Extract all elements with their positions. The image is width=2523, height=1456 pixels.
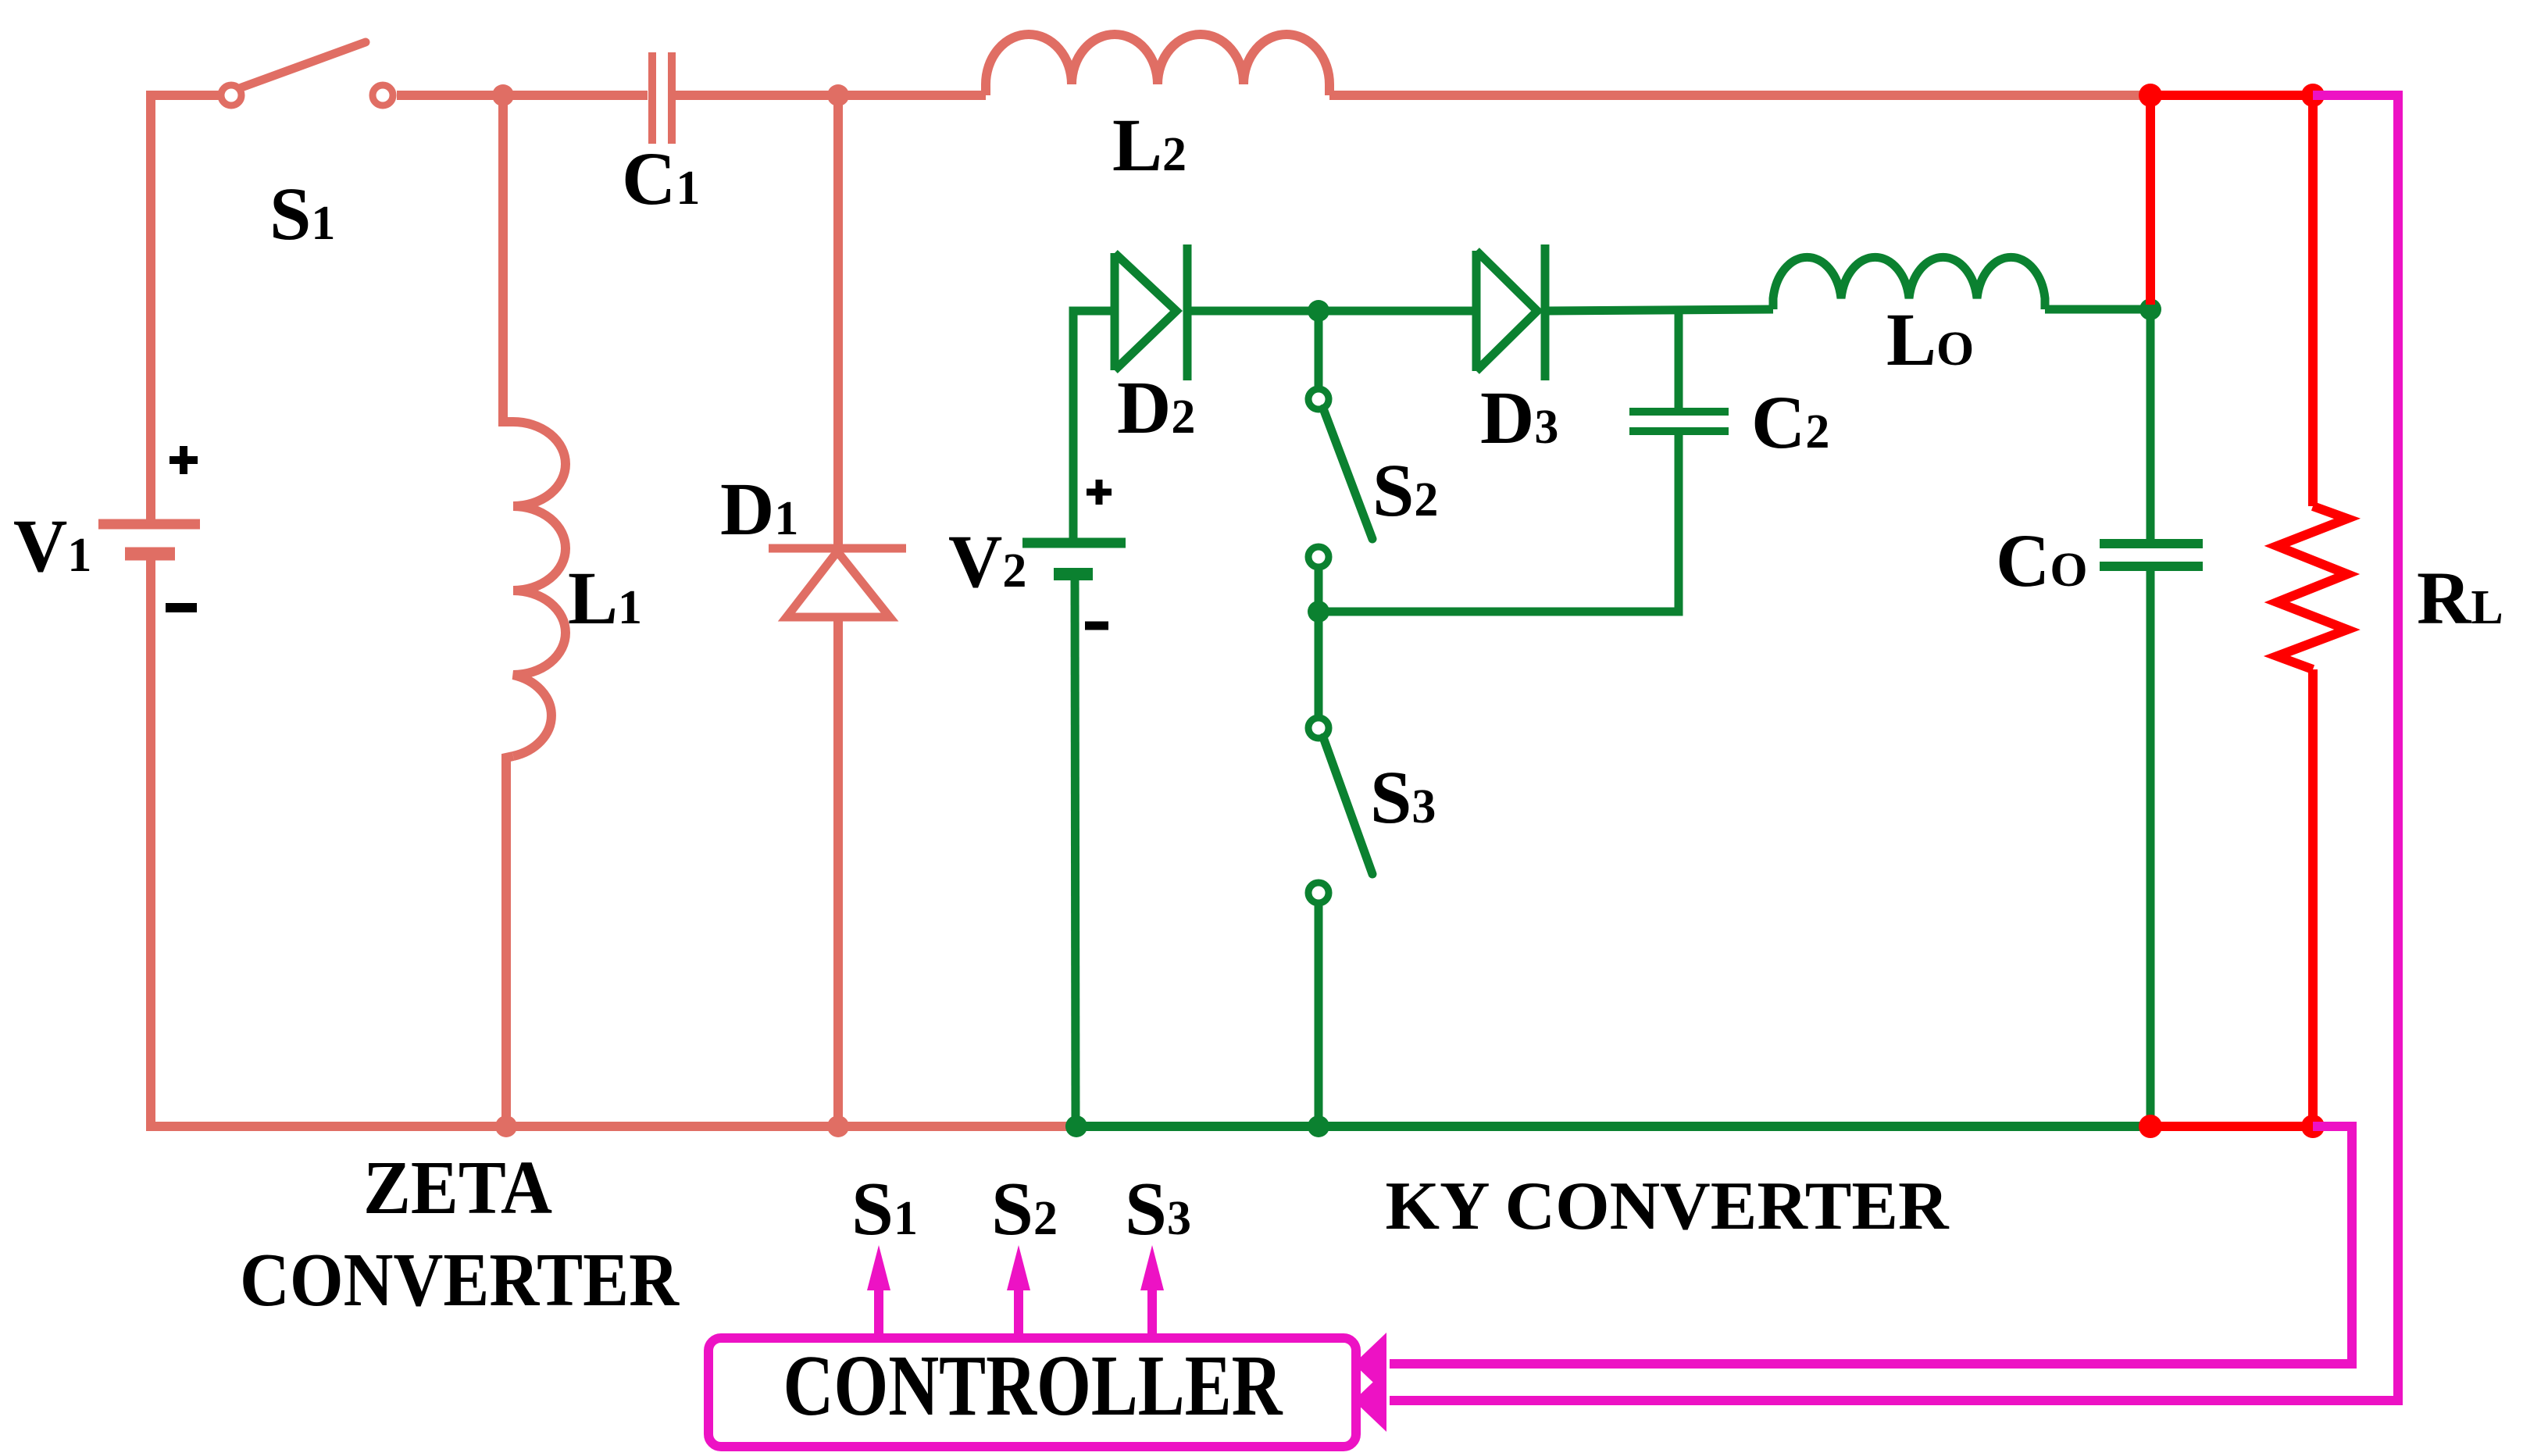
wire bottom output red bbox=[2150, 1122, 2313, 1131]
node S3 bottom bbox=[1308, 1115, 1329, 1137]
wire S2 bottom stub to node bbox=[1315, 567, 1323, 612]
wire output node vertical red bbox=[2146, 95, 2155, 305]
battery V1 bbox=[98, 524, 200, 554]
node L1 bottom bbox=[495, 1115, 517, 1137]
battery V2 bbox=[1022, 543, 1126, 574]
inductor Lo bbox=[1773, 257, 2045, 309]
wire output node down to Co bbox=[2147, 309, 2155, 539]
wire V2 minus down to bottom rail bbox=[1075, 579, 1076, 1126]
arrowhead feedback inner bbox=[1354, 1333, 1386, 1395]
switch S3 contact bottom bbox=[1308, 883, 1329, 903]
wire S2 node stub bbox=[1315, 311, 1323, 388]
wire Lo to output node bbox=[2045, 305, 2150, 314]
resistor RL bbox=[2277, 506, 2347, 669]
junction dots green bbox=[1065, 298, 2161, 1137]
svg-text:S2: S2 bbox=[991, 1167, 1058, 1251]
diode D2 bbox=[1115, 244, 1187, 380]
wire node down to S3 bbox=[1315, 612, 1323, 718]
controller section (magenta) bbox=[708, 95, 2398, 1447]
node S2-S3-C2 bbox=[1308, 601, 1329, 623]
svg-text:D3: D3 bbox=[1480, 376, 1558, 459]
capacitor C1 bbox=[652, 52, 672, 144]
svg-text:C2: C2 bbox=[1751, 380, 1829, 464]
arrowhead gate S1 bbox=[867, 1245, 890, 1290]
node bottom output left bbox=[2139, 1115, 2162, 1138]
wire node to C2 bottom bbox=[1319, 435, 1679, 612]
output section (red) bbox=[2150, 95, 2347, 1126]
wire S1 to C1 bbox=[397, 91, 648, 100]
svg-text:D1: D1 bbox=[720, 467, 798, 551]
wire D2 to D3 bbox=[1187, 307, 1476, 316]
switch S1 contact left bbox=[221, 85, 241, 105]
switch S2 lever bbox=[1323, 409, 1372, 539]
svg-text:CO: CO bbox=[1996, 519, 2088, 602]
svg-text:S3: S3 bbox=[1370, 755, 1436, 839]
wire L2 to node at top-right bbox=[1329, 91, 2150, 100]
svg-text:S1: S1 bbox=[269, 172, 335, 255]
wire RL top lead bbox=[2308, 95, 2318, 506]
arrowhead feedback outer bbox=[1354, 1369, 1386, 1432]
wire Co bottom down bbox=[2147, 571, 2155, 1126]
wire V2 plus up and to D2 anode bbox=[1073, 311, 1115, 538]
node bottom output right bbox=[2301, 1115, 2325, 1138]
label V2 plus bbox=[1087, 480, 1112, 505]
svg-text:LO: LO bbox=[1886, 298, 1974, 381]
switch S3 contact top bbox=[1308, 718, 1329, 738]
label V2 minus bbox=[1085, 622, 1108, 630]
svg-text:V2: V2 bbox=[948, 519, 1026, 603]
KY converter section (green) bbox=[1022, 244, 2203, 1126]
node D1 bottom bbox=[827, 1115, 849, 1137]
capacitor C2 bbox=[1629, 412, 1729, 431]
node output Lo-Co bbox=[2139, 298, 2161, 320]
svg-text:C1: C1 bbox=[622, 137, 700, 220]
wire D1 bottom branch bbox=[833, 617, 843, 1126]
svg-text:S3: S3 bbox=[1125, 1167, 1191, 1251]
wire V1 minus down and bottom rail salmon bbox=[151, 560, 1076, 1126]
switch S3 lever bbox=[1323, 737, 1372, 874]
label V1 minus bbox=[166, 603, 197, 612]
wire feedback outer from top output bbox=[1390, 95, 2398, 1401]
junction dots salmon bbox=[492, 84, 849, 1137]
wire gate S3 stem bbox=[1147, 1289, 1157, 1338]
switch S1 lever bbox=[241, 42, 366, 87]
arrowhead gate S3 bbox=[1140, 1245, 1164, 1290]
svg-text:ZETA: ZETA bbox=[363, 1146, 552, 1229]
diode D3 bbox=[1476, 244, 1545, 380]
arrowhead gate S2 bbox=[1007, 1245, 1030, 1290]
wire C2 top stub to D3 wire bbox=[1675, 311, 1683, 408]
ZETA converter section (salmon) bbox=[98, 34, 2150, 1126]
wire S3 bottom down to rail bbox=[1315, 903, 1323, 1126]
switch S2 contact bottom bbox=[1308, 547, 1329, 567]
svg-text:V1: V1 bbox=[13, 504, 91, 587]
wire gate S1 stem bbox=[874, 1289, 883, 1338]
node D2-S2 bbox=[1308, 300, 1329, 322]
node top output right bbox=[2301, 84, 2325, 107]
wire top-left horizontal from V1 to S1 bbox=[151, 95, 219, 520]
svg-text:KY CONVERTER: KY CONVERTER bbox=[1386, 1169, 1950, 1244]
node V2 bottom bbox=[1065, 1115, 1087, 1137]
switch S2 contact top bbox=[1308, 389, 1329, 409]
node top output left bbox=[2139, 84, 2162, 107]
inductor L1 bbox=[513, 422, 566, 756]
diode D1 bbox=[769, 548, 906, 617]
svg-text:L2: L2 bbox=[1112, 103, 1187, 187]
wire L1 top branch bbox=[503, 95, 513, 422]
switch S1 contact right bbox=[373, 85, 393, 105]
wire C1 to L2 bbox=[676, 91, 986, 100]
inductor L2 bbox=[986, 34, 1329, 95]
wire top output red bbox=[2150, 91, 2313, 100]
svg-text:CONVERTER: CONVERTER bbox=[240, 1238, 680, 1322]
wire RL bottom lead bbox=[2308, 669, 2318, 1126]
svg-text:S2: S2 bbox=[1372, 448, 1438, 532]
svg-text:S1: S1 bbox=[851, 1167, 918, 1251]
node L1 top bbox=[492, 84, 514, 106]
node D1 top bbox=[827, 84, 849, 106]
svg-text:L1: L1 bbox=[568, 556, 642, 640]
wire D3 to Lo bbox=[1545, 309, 1773, 311]
controller box bbox=[708, 1338, 1356, 1447]
wire bottom rail green bbox=[1076, 1122, 2150, 1131]
junction dots red bbox=[2139, 84, 2325, 1138]
capacitor Co bbox=[2100, 544, 2203, 566]
wire feedback inner from bottom output bbox=[1390, 1126, 2352, 1364]
svg-text:RL: RL bbox=[2417, 556, 2503, 640]
wire L1 bottom branch bbox=[506, 756, 513, 1126]
label V1 plus bbox=[170, 446, 198, 474]
svg-text:CONTROLLER: CONTROLLER bbox=[783, 1338, 1283, 1434]
wire D1 top branch bbox=[833, 95, 843, 547]
wire gate S2 stem bbox=[1014, 1289, 1023, 1338]
